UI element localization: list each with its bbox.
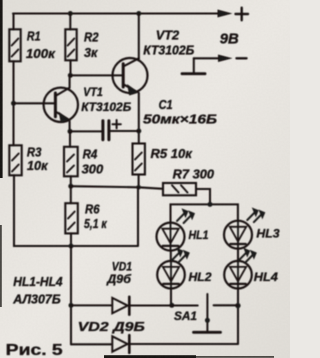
LED HL2 [157, 248, 189, 288]
node VT1 emitter junction [68, 129, 73, 134]
wire vertical to bottom net [137, 187, 139, 245]
wire mid horizontal [71, 186, 163, 189]
node HL2 rail junction [169, 303, 174, 308]
node VD1 rail junction [69, 303, 74, 308]
wire VT2 collector lead [138, 14, 140, 60]
wire R5 bottom lead [138, 175, 140, 188]
diode VD1 [112, 298, 127, 313]
wire left-bottom vertical [70, 246, 72, 344]
wire R2 top lead [69, 14, 71, 30]
resistor R2 [65, 29, 76, 60]
wire minus terminal [194, 57, 220, 59]
wire R4 bottom lead [70, 176, 72, 186]
wire HL1-HL2 [170, 251, 172, 261]
resistor R3 [9, 145, 21, 175]
LED HL1 [157, 209, 195, 251]
node bottom-left junction [69, 244, 74, 249]
node VT2 collector junction [136, 11, 141, 16]
wire left rail upper [12, 14, 14, 30]
node base junction [11, 101, 16, 106]
node R2 top junction [68, 11, 73, 16]
wire VD2 rail left [71, 343, 112, 345]
LED HL3 [224, 208, 265, 249]
wire VD2 to HL4 column [131, 343, 238, 345]
wire top supply rail [13, 12, 229, 14]
wire VT1 base lead [14, 102, 56, 104]
wire left rail mid [12, 61, 14, 145]
node minus terminal bar [193, 58, 195, 73]
wire R2 bottom lead [69, 60, 71, 75]
wire HL4 bottom lead [237, 289, 239, 344]
transistor VT1 [44, 75, 78, 131]
node R4 bottom junction [68, 184, 73, 189]
resistor R7 [163, 183, 196, 195]
wire R7 right lead [196, 189, 210, 204]
LED HL4 [224, 248, 256, 288]
wire VT2 base wire [70, 74, 123, 76]
node R7 to LED rail junction [208, 202, 213, 207]
wire LED top rail [171, 204, 238, 222]
node C1 right junction [136, 129, 141, 134]
transistor VT2 [113, 58, 148, 144]
wire + arrowhead [218, 10, 231, 17]
node HL4 rail junction [235, 303, 240, 308]
scan artifacts [0, 0, 3, 178]
capacitor C1 [103, 121, 109, 140]
node VT1 collector junction [68, 73, 73, 78]
resistor R4 [64, 147, 78, 177]
wire HL2 bottom lead [170, 289, 172, 306]
node R5 bottom junction [136, 185, 141, 190]
wire left rail lower [14, 175, 138, 246]
diode VD2 [112, 336, 127, 351]
wire C1 left lead [70, 130, 102, 132]
resistor R6 [65, 203, 78, 233]
wire HL3-HL4 [237, 249, 239, 261]
wire VT1 emitter to R4 [69, 131, 71, 146]
wire VD1 to SA1 [131, 304, 198, 306]
wire C1 right lead [110, 130, 139, 132]
switch SA1 [214, 304, 238, 306]
resistor R5 [133, 144, 145, 175]
wire R6 bottom lead [70, 233, 72, 246]
wire R6 top lead [70, 186, 72, 203]
resistor R1 [9, 29, 20, 61]
node plus terminal [236, 8, 249, 21]
wire VD1 rail left [71, 304, 112, 306]
